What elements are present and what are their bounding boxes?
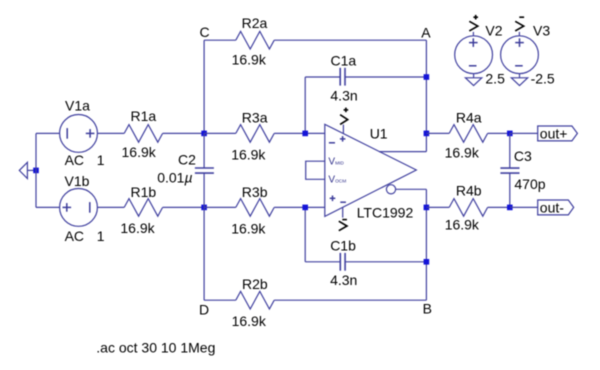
wire R2b to B	[274, 299, 426, 301]
junction C1b right	[424, 259, 430, 265]
svg-text:C: C	[200, 24, 210, 40]
wire to out- flag	[510, 206, 538, 208]
svg-text:16.9k: 16.9k	[120, 220, 155, 236]
wire OUT+ to A column	[379, 151, 426, 153]
junction left rail	[33, 168, 39, 174]
wire R1a to node	[163, 132, 205, 134]
svg-text:V2: V2	[485, 23, 502, 39]
node C wire (vertical)	[203, 40, 205, 133]
wire B to R4b	[426, 206, 449, 208]
wire to out+ flag	[510, 132, 538, 134]
voltage source V1b	[60, 189, 98, 227]
svg-text:out-: out-	[540, 200, 564, 216]
pin V- supply stub	[342, 207, 344, 217]
capacitor C2	[195, 133, 214, 207]
svg-text:AC: AC	[65, 228, 84, 244]
junction R4a left	[424, 131, 430, 137]
svg-text:A: A	[421, 24, 431, 40]
wire V1a left	[36, 132, 60, 134]
wire row1 node to R3a	[204, 132, 236, 134]
wire C1b tap	[304, 207, 306, 261]
wire C to R2a	[204, 39, 236, 41]
junction R4b left	[424, 205, 430, 211]
svg-text:C1a: C1a	[331, 52, 357, 68]
svg-text:16.9k: 16.9k	[232, 313, 267, 329]
wire V1a to R1a	[97, 132, 124, 134]
svg-text:16.9k: 16.9k	[445, 217, 480, 233]
pin marker - (bottom)	[340, 201, 346, 203]
capacitor C1b	[305, 253, 426, 271]
svg-text:V1a: V1a	[65, 98, 90, 114]
svg-text:V3: V3	[533, 23, 550, 39]
svg-text:D: D	[199, 301, 209, 317]
svg-text:-2.5: -2.5	[531, 71, 555, 87]
svg-text:R1a: R1a	[131, 108, 157, 124]
wire R2a to A	[274, 39, 426, 41]
resistor R4a	[449, 125, 487, 143]
svg-text:0.01µ: 0.01µ	[157, 170, 192, 186]
junction C2 bottom	[201, 205, 207, 211]
svg-text:C2: C2	[178, 151, 196, 167]
svg-text:LTC1992: LTC1992	[357, 205, 414, 221]
wire A to R4a	[426, 132, 449, 134]
wire V1b left	[36, 206, 60, 208]
net flag V- (V3)	[515, 17, 524, 36]
junction out+	[507, 131, 513, 137]
wire R4b to out-	[488, 206, 510, 208]
voltage source V3	[501, 36, 539, 74]
svg-text:B: B	[423, 301, 432, 317]
node D wire (vertical)	[203, 207, 205, 300]
voltage source V2	[455, 36, 493, 74]
resistor R2b	[236, 291, 274, 309]
wire R4a to out+	[488, 132, 510, 134]
svg-text:2.5: 2.5	[485, 71, 505, 87]
svg-text:R2a: R2a	[242, 15, 268, 31]
V- label chevron	[342, 219, 347, 221]
output bubble OUT-	[386, 185, 395, 194]
resistor R3b	[236, 199, 274, 217]
svg-text:C1b: C1b	[330, 237, 356, 253]
op-amp U1	[306, 108, 417, 231]
svg-text:1: 1	[97, 228, 105, 244]
junction C1a left	[302, 131, 308, 137]
junction C1a right	[424, 74, 430, 80]
pin marker + (bottom)	[330, 197, 336, 199]
svg-text:C3: C3	[514, 148, 532, 164]
svg-text:16.9k: 16.9k	[231, 146, 266, 162]
ground	[19, 162, 36, 178]
svg-text:R3b: R3b	[242, 184, 268, 200]
svg-text:R1b: R1b	[131, 184, 157, 200]
svg-text:16.9k: 16.9k	[445, 145, 480, 161]
wire C1a tap	[304, 77, 306, 133]
wire D to R2b	[204, 299, 236, 301]
flag out-	[538, 200, 574, 215]
junction out-	[507, 205, 513, 211]
net flag V+ (V2)	[469, 15, 478, 36]
ground (V2)	[465, 74, 481, 86]
resistor R4b	[449, 199, 487, 217]
wire Vmid-Vocm bracket	[306, 161, 325, 179]
svg-text:1: 1	[97, 152, 105, 168]
wire left rail	[35, 133, 37, 207]
wire V1b to R1b	[97, 206, 124, 208]
flag out+	[538, 126, 578, 141]
voltage source V1a	[60, 114, 98, 152]
svg-text:R2b: R2b	[242, 276, 268, 292]
svg-text:16.9k: 16.9k	[232, 52, 267, 68]
resistor R2a	[236, 31, 274, 49]
svg-text:V1b: V1b	[65, 173, 90, 189]
svg-text:.ac oct 30 10 1Meg: .ac oct 30 10 1Meg	[96, 340, 215, 356]
junction C1b left	[302, 205, 308, 211]
wire R3a to op-amp	[274, 132, 325, 134]
node B wire (vertical)	[425, 189, 427, 300]
svg-text:4.3n: 4.3n	[330, 87, 357, 103]
wire OUT- to B column	[396, 188, 427, 190]
svg-text:R4b: R4b	[456, 183, 482, 199]
svg-text:R3a: R3a	[242, 109, 268, 125]
resistor R3a	[236, 125, 274, 143]
svg-text:4.3n: 4.3n	[330, 272, 357, 288]
ground (V3)	[511, 74, 527, 86]
pin V+ supply stub	[342, 125, 344, 134]
resistor R1a	[124, 125, 162, 143]
pin marker + (top)	[340, 138, 346, 140]
pin marker IN- (top)	[329, 142, 335, 144]
capacitor C3	[500, 133, 519, 207]
svg-text:R4a: R4a	[456, 109, 482, 125]
wire R3b to op-amp	[274, 206, 325, 208]
junction C2 top	[201, 131, 207, 137]
svg-text:out+: out+	[540, 126, 568, 142]
wire row2 node to R3b	[204, 206, 236, 208]
resistor R1b	[124, 199, 162, 217]
svg-text:U1: U1	[370, 125, 388, 141]
V+ label chevron	[340, 115, 348, 125]
svg-text:16.9k: 16.9k	[122, 144, 157, 160]
capacitor C1a	[305, 68, 426, 86]
wire R1b to node	[163, 206, 205, 208]
svg-text:16.9k: 16.9k	[231, 220, 266, 236]
svg-text:AC: AC	[65, 152, 84, 168]
svg-text:470p: 470p	[514, 176, 545, 192]
node A wire (vertical)	[425, 40, 427, 151]
